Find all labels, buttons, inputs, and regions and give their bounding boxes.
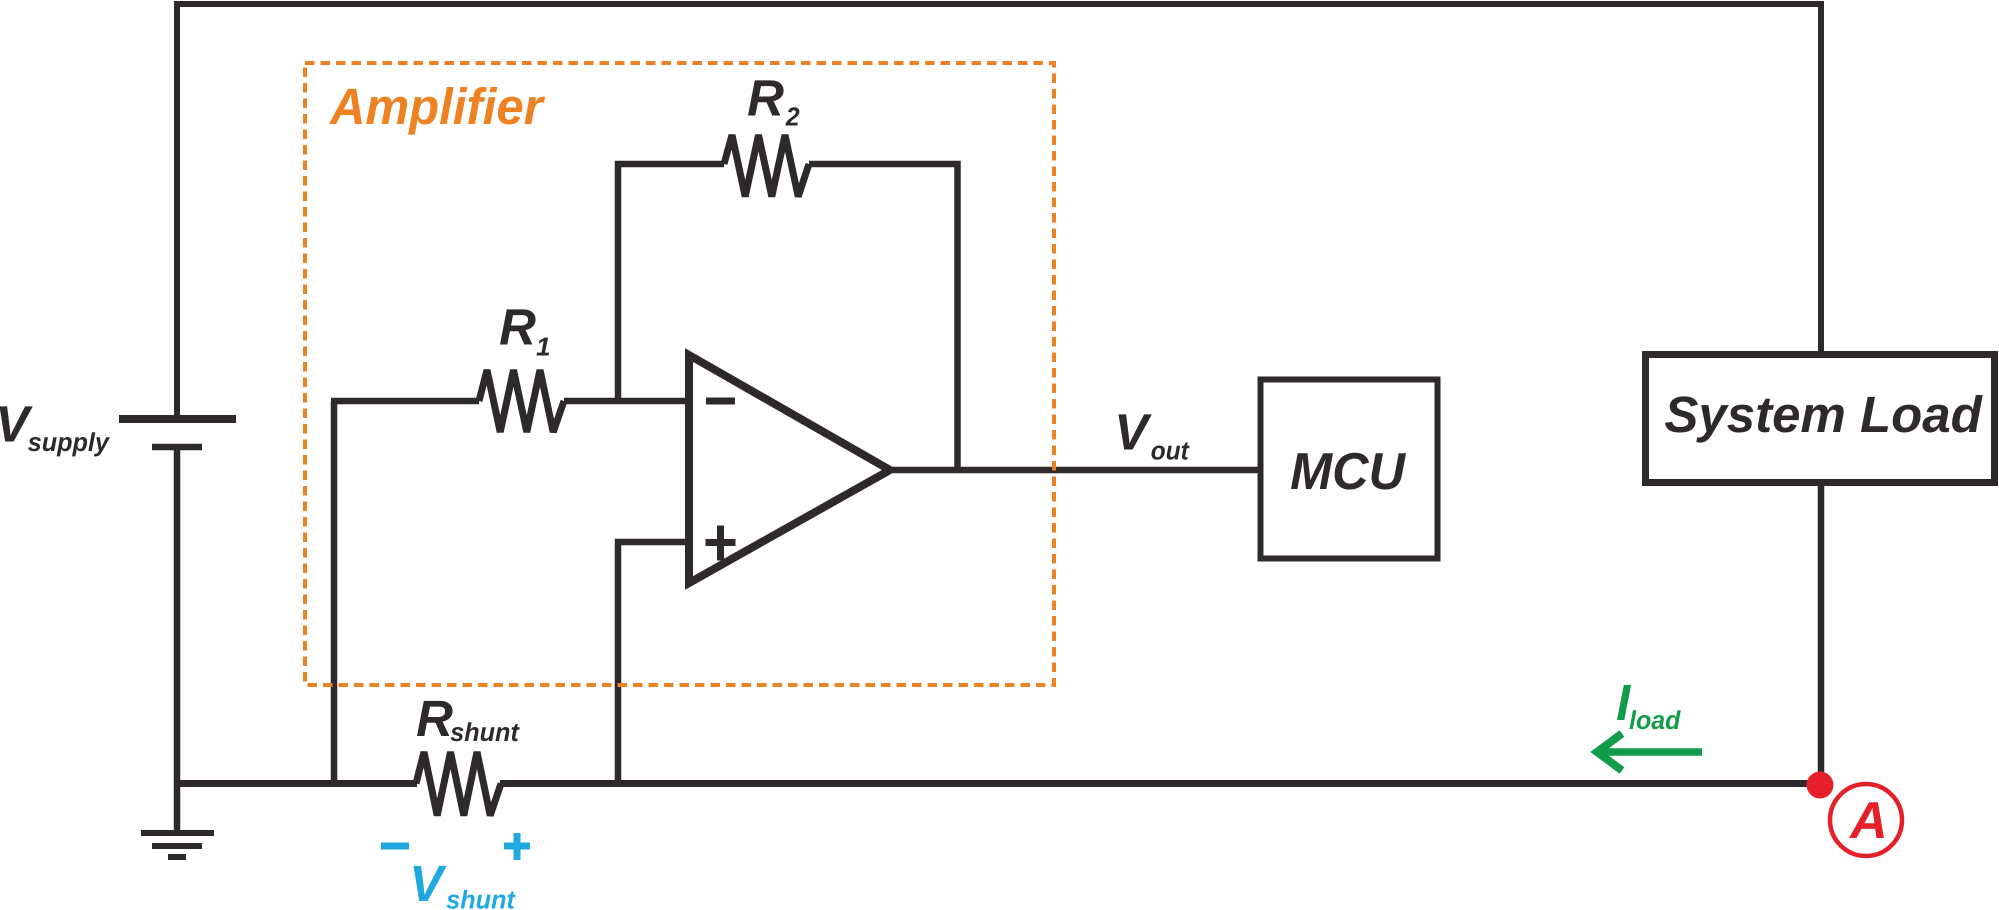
V_shunt polarity minus xyxy=(381,843,409,850)
I_load arrow xyxy=(1597,734,1702,771)
V_shunt polarity plus xyxy=(504,833,530,860)
wire System Load bottom leg xyxy=(1818,486,1825,783)
wire R2 left leg xyxy=(618,164,724,401)
wire left branch vertical xyxy=(331,401,338,784)
battery V_supply plate long xyxy=(119,415,236,423)
resistor R1 xyxy=(479,370,564,432)
op-amp plus sign xyxy=(706,526,736,561)
wire op-amp output xyxy=(893,467,1260,474)
System Load box xyxy=(1646,355,1995,483)
wire R1 left xyxy=(331,398,479,405)
MCU box xyxy=(1261,380,1438,559)
V_out label xyxy=(1119,414,1152,449)
wire op-amp plus input xyxy=(618,542,693,784)
wire bottom rail right of R_shunt xyxy=(500,780,1814,787)
R_shunt subscript xyxy=(451,722,520,741)
amplifier dashed box xyxy=(305,63,1054,685)
node junction red dot xyxy=(1807,772,1834,799)
R1 subscript 1 xyxy=(537,338,550,356)
wire battery to ground xyxy=(174,450,181,833)
op-amp U1 xyxy=(689,355,890,583)
MCU label xyxy=(1291,453,1406,490)
R_shunt label xyxy=(417,701,453,736)
V_out subscript xyxy=(1152,443,1190,460)
battery V_supply plate short xyxy=(152,444,202,451)
wire top rail xyxy=(177,4,1821,415)
Amplifier label xyxy=(329,87,545,135)
ammeter A label xyxy=(1849,802,1884,838)
resistor R_shunt xyxy=(416,752,501,816)
wire R1 to op-amp inverting input xyxy=(564,398,693,405)
op-amp minus sign xyxy=(706,398,735,405)
wire bottom rail left of R_shunt xyxy=(177,780,417,787)
I_load subscript xyxy=(1630,710,1681,729)
R2 label xyxy=(748,80,784,115)
wire R2 right leg xyxy=(809,164,958,470)
System Load label xyxy=(1665,395,1983,443)
V_supply label xyxy=(0,406,33,441)
V_supply subscript xyxy=(28,432,110,456)
V_shunt label xyxy=(414,866,447,901)
ground symbol xyxy=(141,833,214,857)
I_load label xyxy=(1617,685,1631,720)
V_shunt subscript xyxy=(447,890,516,909)
R1 label xyxy=(500,309,536,344)
ammeter A circle xyxy=(1830,784,1902,856)
resistor R2 xyxy=(724,135,809,197)
R2 subscript 2 xyxy=(786,107,800,125)
